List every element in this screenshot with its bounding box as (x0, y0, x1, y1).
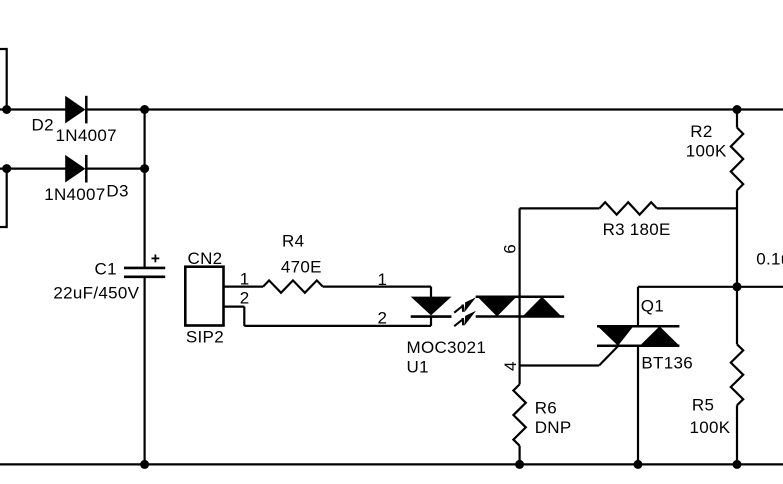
svg-text:R6: R6 (535, 399, 557, 418)
wire LED anode drop (430, 287, 432, 298)
svg-text:C1: C1 (95, 260, 117, 279)
svg-text:R5: R5 (692, 396, 714, 415)
triac Q1 (597, 326, 679, 346)
wire top rail from D2 cathode to right edge (86, 108, 783, 110)
wire Q1 top vertical (637, 287, 639, 327)
svg-text:U1: U1 (407, 357, 429, 376)
resistor R2 (731, 128, 743, 191)
wire LED cathode drop (430, 317, 432, 326)
svg-text:470E: 470E (281, 258, 322, 277)
node junction bottom R6 (515, 460, 524, 469)
node junction left D3 (2, 164, 11, 173)
svg-text:100K: 100K (686, 141, 727, 160)
wire D3 anode segment (0, 168, 66, 170)
svg-text:2: 2 (240, 289, 250, 308)
opto triac of U1 (476, 297, 565, 317)
svg-text:2: 2 (378, 309, 388, 328)
opto LED of U1 (411, 297, 452, 317)
wire U1 pin4 horizontal (520, 364, 600, 366)
capacitor C1 (124, 268, 165, 277)
wire Q1 gate diagonal (599, 346, 618, 365)
svg-text:R3: R3 (603, 220, 625, 239)
light arrow upper (454, 297, 476, 312)
svg-text:SIP2: SIP2 (186, 327, 224, 346)
svg-text:CN2: CN2 (188, 249, 223, 268)
wire D2 anode segment (0, 108, 66, 110)
svg-text:R2: R2 (690, 122, 712, 141)
svg-text:22uF/450V: 22uF/450V (53, 284, 139, 303)
svg-text:Q1: Q1 (641, 297, 664, 316)
node junction bus D2 (140, 105, 149, 114)
wire C1 bus vertical lower (144, 277, 146, 465)
svg-text:MOC3021: MOC3021 (407, 338, 487, 357)
wire mid node horizontal (638, 286, 783, 288)
wire left vertical lower (6, 169, 8, 229)
wire D3 cathode to bus (86, 168, 144, 170)
wire R3 to R2 bus (657, 207, 737, 209)
wire R2 top stub (736, 110, 738, 128)
node junction bottom R5 (733, 460, 742, 469)
svg-text:1: 1 (240, 269, 250, 288)
diode D2 (65, 96, 86, 124)
wire pin6 to R3 (520, 207, 600, 209)
wire bottom rail (0, 463, 783, 465)
node junction top R2 (733, 105, 742, 114)
svg-text:4: 4 (501, 361, 520, 371)
wire pin2 to LED cathode (244, 325, 431, 327)
svg-text:180E: 180E (630, 220, 671, 239)
wire CN2 pin1 to R4 (224, 286, 264, 288)
svg-text:D3: D3 (106, 182, 128, 201)
resistor R3 (599, 202, 657, 214)
wire R6 bottom (518, 446, 520, 465)
wire left vertical upper (6, 48, 8, 110)
node junction left D2 (2, 105, 11, 114)
svg-text:1N4007: 1N4007 (56, 126, 117, 145)
svg-text:6: 6 (500, 244, 519, 254)
resistor R4 (263, 280, 323, 292)
wire C1 bus vertical upper (144, 110, 146, 268)
wire bottom-left stub to left edge (0, 226, 7, 228)
connector CN2 body (185, 267, 223, 326)
wire Q1 bottom vertical (637, 346, 639, 465)
svg-text:0.1uF: 0.1uF (756, 250, 783, 269)
node junction mid R2-R5 (733, 282, 742, 291)
svg-text:D2: D2 (32, 116, 54, 135)
svg-text:100K: 100K (690, 418, 731, 437)
resistor R5 (731, 344, 743, 405)
diode D3 (65, 155, 86, 183)
node junction bottom Q1 (634, 460, 643, 469)
light arrow lower (454, 311, 476, 326)
svg-text:1: 1 (378, 270, 388, 289)
wire top-left stub to left edge (0, 48, 7, 50)
svg-text:BT136: BT136 (641, 354, 693, 373)
label C1 plus polarity mark (152, 255, 160, 263)
svg-text:1N4007: 1N4007 (44, 185, 105, 204)
wire R5 bottom (736, 405, 738, 464)
wire CN2 pin2 horizontal (224, 306, 245, 308)
svg-text:DNP: DNP (535, 418, 572, 437)
svg-text:R4: R4 (282, 231, 304, 250)
wire R4 to opto LED anode (323, 286, 431, 288)
node junction bus D3 (140, 164, 149, 173)
resistor R6 (513, 384, 525, 445)
node junction bottom C1 (140, 460, 149, 469)
wire R2 to mid node (736, 190, 738, 344)
wire CN2 pin2 vertical (243, 307, 245, 326)
wire U1 triac vertical (518, 208, 520, 384)
